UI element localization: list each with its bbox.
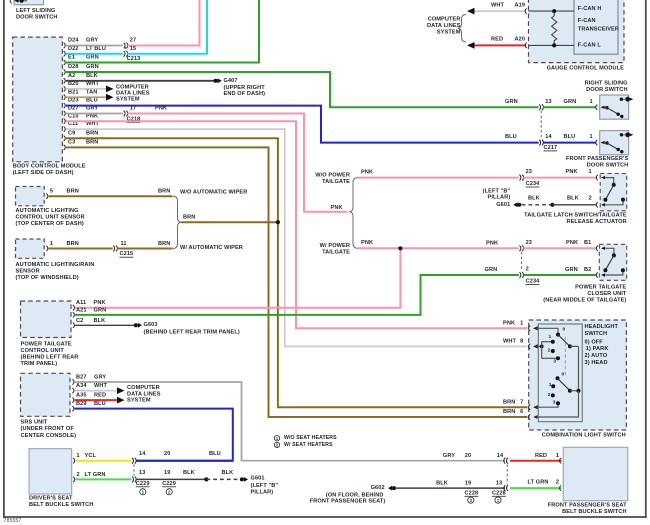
svg-text:(LEFT "B": (LEFT "B" — [251, 483, 279, 489]
svg-text:W/ AUTOMATIC WIPER: W/ AUTOMATIC WIPER — [180, 245, 243, 251]
svg-text:A2: A2 — [68, 73, 75, 79]
svg-text:YCL: YCL — [85, 453, 97, 459]
wire D23 BLU to front passenger door switch — [66, 106, 539, 143]
svg-text:0) OFF: 0) OFF — [585, 339, 604, 345]
svg-text:FRONT PASSENGER'S: FRONT PASSENGER'S — [566, 156, 628, 162]
body control module U1 — [13, 37, 63, 162]
svg-text:PILLAR): PILLAR) — [251, 490, 274, 496]
svg-text:6: 6 — [520, 409, 523, 415]
connector 19/13 (C228) — [504, 485, 508, 491]
svg-text:TAILGATE: TAILGATE — [322, 250, 350, 256]
connector C228 link — [506, 464, 508, 484]
svg-text:CENTER CONSOLE): CENTER CONSOLE) — [21, 433, 77, 439]
front passenger's seat belt buckle switch — [563, 447, 628, 500]
svg-text:G602: G602 — [371, 485, 385, 491]
wire E1 GRN exits top — [66, 0, 259, 63]
svg-text:LEFT SLIDING: LEFT SLIDING — [16, 8, 55, 14]
svg-text:(NEAR MIDDLE OF TAILGATE): (NEAR MIDDLE OF TAILGATE) — [543, 298, 626, 304]
BCM pin B20 — [64, 86, 66, 91]
svg-text:COMPUTER: COMPUTER — [428, 16, 461, 22]
wire D24 GRY to connector 27 — [66, 45, 123, 47]
connector 23 (C234) closer — [519, 245, 523, 251]
arrow computer data lines A35 — [117, 397, 125, 404]
right sliding door switch — [600, 95, 629, 119]
SRS pin B29 — [72, 406, 74, 411]
internal wire F-CAN H — [529, 10, 575, 12]
junction F-CAN H / resistor — [552, 9, 556, 13]
svg-text:C229: C229 — [162, 481, 176, 487]
driver buckle pin 2 — [73, 477, 75, 482]
svg-text:DOOR SWITCH: DOOR SWITCH — [587, 162, 629, 168]
svg-text:BLK: BLK — [567, 195, 579, 201]
svg-text:PNK: PNK — [94, 300, 106, 306]
BCM pin C11 — [64, 127, 66, 132]
wire PNK w/ power tailgate to connector 23 — [358, 247, 519, 249]
svg-text:FRONT PASSENGER SEAT): FRONT PASSENGER SEAT) — [310, 499, 386, 505]
wire D28 GRN to right sliding door switch — [66, 72, 539, 107]
wire BLK connector to junction — [136, 478, 207, 480]
svg-text:LT BLU: LT BLU — [86, 46, 106, 52]
svg-text:GRY: GRY — [86, 38, 98, 44]
closer pin B2 — [596, 272, 598, 277]
front passenger door switch — [600, 131, 629, 155]
wire YCL pin1 to connector 14 — [75, 460, 131, 462]
headlight switch inner box — [538, 324, 582, 422]
svg-text:AUTOMATIC LIGHTING: AUTOMATIC LIGHTING — [16, 208, 79, 214]
svg-text:BRN: BRN — [183, 214, 195, 220]
svg-text:PNK: PNK — [566, 240, 578, 246]
svg-text:PNK: PNK — [331, 205, 343, 211]
svg-text:BLK: BLK — [183, 470, 195, 476]
BCM pin C9 — [64, 136, 66, 141]
gauge pin A20 — [525, 43, 527, 48]
wire BRN connector 11 to brace — [117, 248, 173, 250]
junction BLK — [550, 203, 554, 207]
svg-text:A20: A20 — [515, 37, 526, 43]
driver's seat belt buckle switch — [29, 449, 72, 494]
svg-text:C215: C215 — [120, 251, 134, 257]
wire PNK connector 23 to tailgate latch switch — [523, 177, 596, 179]
svg-text:BRN: BRN — [86, 140, 98, 146]
upper wafer contacts — [537, 345, 542, 347]
page border left — [3, 0, 5, 518]
svg-text:13: 13 — [545, 99, 551, 105]
svg-text:1: 1 — [549, 382, 552, 388]
wire B21 TAN to computer data lines — [66, 96, 106, 98]
wire PNK connector 23 to closer unit B1 — [523, 247, 596, 249]
ground G407 — [214, 79, 218, 83]
connector 2 (C234) — [519, 272, 523, 278]
passenger buckle pin 2 — [560, 486, 562, 491]
svg-text:DOOR SWITCH: DOOR SWITCH — [16, 15, 58, 21]
svg-text:C2: C2 — [76, 318, 83, 324]
svg-text:3: 3 — [553, 400, 556, 406]
tailgate latch switch/tailgate release actuator — [600, 174, 627, 211]
svg-text:WHT: WHT — [503, 339, 517, 345]
connector C234 link — [520, 252, 522, 272]
svg-text:C234: C234 — [526, 181, 541, 187]
wire A11 PNK to w/ power tailgate junction — [75, 248, 400, 307]
svg-text:785557: 785557 — [4, 518, 22, 524]
svg-text:RED: RED — [535, 453, 547, 459]
junction BRN sensors / C9 — [276, 220, 280, 224]
lower wafer contacts — [551, 384, 555, 388]
wire A2 BLK to G407 — [66, 80, 214, 82]
svg-text:SYSTEM: SYSTEM — [437, 30, 461, 36]
svg-text:C229: C229 — [136, 481, 150, 487]
wire BLK dashed G601 to junction — [522, 204, 553, 206]
svg-text:23: 23 — [526, 240, 532, 246]
wire C11 WHT to combination light switch pin 8 — [66, 129, 528, 346]
svg-text:7: 7 — [520, 399, 523, 405]
svg-text:(ON FLOOR, BEHIND: (ON FLOOR, BEHIND — [326, 492, 384, 498]
svg-text:20: 20 — [465, 453, 471, 459]
connector 13/19 (C229) — [132, 477, 136, 483]
wire BRN sensor 5 to brace — [49, 195, 173, 197]
wire RED A20 to F-CAN L — [475, 44, 527, 46]
svg-text:W/ SEAT HEATERS: W/ SEAT HEATERS — [284, 442, 333, 448]
wire C2 BLK to G603 — [75, 324, 134, 326]
svg-text:TAN: TAN — [86, 89, 97, 95]
wire B29 BLU to connector 14/20 — [75, 409, 233, 461]
svg-text:A35: A35 — [76, 393, 87, 399]
legend w/o seat heaters — [274, 436, 279, 441]
svg-text:C217: C217 — [544, 145, 558, 151]
junction w/ power tailgate PNK — [398, 246, 402, 250]
wire C9 BRN to combination light switch pin 7 — [66, 138, 528, 407]
mechanical link dashed — [564, 337, 566, 376]
svg-text:SENSOR: SENSOR — [16, 268, 40, 274]
svg-text:TAILGATE: TAILGATE — [322, 179, 350, 185]
svg-text:G601: G601 — [496, 202, 510, 208]
svg-text:C9: C9 — [68, 130, 75, 136]
svg-text:DATA LINES: DATA LINES — [116, 90, 150, 96]
svg-text:B1: B1 — [584, 240, 591, 246]
connector C213 link — [125, 47, 127, 51]
svg-text:BLK: BLK — [94, 318, 106, 324]
svg-text:GRN: GRN — [86, 64, 99, 70]
svg-text:A21: A21 — [76, 307, 87, 313]
wire GRN connector 13 to right sliding door switch — [543, 106, 596, 108]
svg-text:F-CAN H: F-CAN H — [578, 6, 602, 12]
latch pin 1 — [596, 175, 598, 180]
svg-text:SYSTEM: SYSTEM — [127, 398, 151, 404]
brace w/o-w/ automatic wiper — [173, 196, 182, 248]
svg-text:19: 19 — [164, 470, 170, 476]
BCM pin D28 — [64, 69, 66, 74]
gauge control module — [529, 0, 625, 63]
svg-text:0: 0 — [562, 371, 565, 377]
arrow computer data lines B20 — [106, 86, 114, 93]
svg-text:17: 17 — [130, 106, 136, 112]
svg-text:G601: G601 — [251, 475, 265, 481]
wire BRN brace to C9 junction — [182, 221, 278, 223]
arrow computer data lines B21 — [106, 94, 114, 101]
svg-text:(TOP OF WINDSHIELD): (TOP OF WINDSHIELD) — [16, 275, 79, 281]
brace computer data lines gauge — [458, 15, 467, 42]
svg-text:BRN: BRN — [158, 241, 170, 247]
page border bottom — [3, 516, 647, 518]
svg-text:C228: C228 — [492, 490, 506, 496]
closer pin B1 — [596, 246, 598, 251]
svg-text:DATA LINES: DATA LINES — [427, 23, 461, 29]
connector 23 (C234) — [519, 175, 523, 181]
svg-text:23: 23 — [526, 169, 532, 175]
svg-text:0: 0 — [563, 327, 566, 333]
svg-text:1: 1 — [556, 453, 559, 459]
SRS unit — [21, 373, 71, 416]
svg-text:PNK: PNK — [361, 170, 373, 176]
wire LT GRN connector to passenger buckle pin 2 — [510, 487, 561, 489]
svg-text:RED: RED — [94, 393, 106, 399]
wire A35 RED to computer data lines — [75, 399, 117, 401]
SRS pin A34 — [72, 388, 74, 393]
BCM pin C3 — [64, 145, 66, 150]
terminating resistor — [552, 11, 557, 45]
svg-text:BLK: BLK — [528, 195, 540, 201]
svg-text:SRS UNIT: SRS UNIT — [21, 420, 48, 426]
svg-text:GAUGE CONTROL MODULE: GAUGE CONTROL MODULE — [547, 65, 625, 71]
wire C10 PNK to combination light switch pin 1 — [66, 121, 528, 328]
wire BLK dashed junction to G601 — [206, 478, 239, 480]
svg-text:GRN: GRN — [564, 99, 577, 105]
wire A34 WHT to computer data lines — [75, 390, 117, 392]
svg-text:11: 11 — [121, 241, 127, 247]
svg-text:CLOSER UNIT: CLOSER UNIT — [587, 291, 626, 297]
svg-text:BLU: BLU — [564, 134, 576, 140]
svg-text:W/O POWER: W/O POWER — [315, 172, 350, 178]
svg-text:COMPUTER: COMPUTER — [116, 84, 149, 90]
power tailgate closer unit — [599, 244, 626, 280]
arrow computer data lines A19 — [467, 8, 475, 15]
wire BLK junction to latch pin 2 — [553, 204, 597, 206]
svg-text:CONTROL UNIT SENSOR: CONTROL UNIT SENSOR — [16, 215, 85, 221]
svg-text:G407: G407 — [224, 78, 238, 84]
svg-text:1: 1 — [50, 241, 53, 247]
svg-text:W/O AUTOMATIC WIPER: W/O AUTOMATIC WIPER — [180, 189, 247, 195]
svg-text:BRN: BRN — [503, 409, 515, 415]
connector 27 (C213) — [124, 43, 128, 49]
svg-text:BRN: BRN — [158, 188, 170, 194]
svg-text:PNK: PNK — [486, 240, 498, 246]
driver buckle pin 1 — [73, 458, 75, 463]
wire B27 GRY to C228 connector — [75, 382, 505, 461]
svg-text:PILLAR): PILLAR) — [488, 195, 511, 201]
wire PNK w/o power tailgate to connector 23 — [358, 177, 519, 179]
svg-text:BRN: BRN — [67, 241, 79, 247]
svg-text:LT GRN: LT GRN — [85, 472, 106, 478]
svg-text:POWER TAILGATE: POWER TAILGATE — [575, 284, 626, 290]
latch pin 2 — [596, 202, 598, 207]
wire GRN connector 2 to closer unit B2 — [523, 274, 596, 276]
wire D27 GRY to connector 17 — [66, 113, 123, 115]
connector 15 (C213) — [124, 51, 128, 57]
left sliding door switch — [14, 0, 44, 5]
brace w/o-w/ power tailgate — [349, 178, 358, 249]
wire RED connector to passenger buckle pin 1 — [510, 460, 561, 462]
connector 14 (C217) — [539, 140, 543, 146]
svg-text:PNK: PNK — [361, 240, 373, 246]
svg-text:END OF DASH): END OF DASH) — [224, 91, 266, 97]
wire C3 BRN to combination light switch pin 6 — [66, 147, 528, 417]
svg-text:GRN: GRN — [565, 267, 578, 273]
connector C217 link — [540, 111, 542, 139]
svg-text:GRY: GRY — [443, 453, 455, 459]
svg-text:TRIM PANEL): TRIM PANEL) — [21, 361, 58, 367]
svg-text:2: 2 — [548, 347, 551, 353]
svg-text:8: 8 — [520, 339, 523, 345]
svg-text:RED: RED — [491, 37, 503, 43]
svg-text:PNK: PNK — [503, 320, 515, 326]
svg-text:B27: B27 — [76, 375, 87, 381]
wire PNK from connector 27, exits top — [128, 0, 200, 46]
svg-text:B21: B21 — [68, 89, 79, 95]
svg-text:GRN: GRN — [94, 307, 107, 313]
svg-text:27: 27 — [130, 38, 136, 44]
wire D22 LT BLU to connector 15 — [66, 53, 123, 55]
F-CAN transceiver box — [574, 0, 618, 54]
connector C229 link — [133, 464, 135, 476]
combination light switch — [529, 320, 627, 430]
svg-text:A34: A34 — [76, 383, 87, 389]
svg-text:D22: D22 — [68, 46, 79, 52]
svg-text:BODY CONTROL MODULE: BODY CONTROL MODULE — [13, 164, 86, 170]
combination pin 8 — [529, 344, 531, 349]
ground G601 bottom — [240, 477, 244, 481]
svg-text:PNK: PNK — [155, 106, 167, 112]
svg-text:SWITCH: SWITCH — [585, 331, 608, 337]
svg-text:1: 1 — [77, 453, 80, 459]
svg-text:F-CAN: F-CAN — [578, 18, 596, 24]
svg-text:LT GRN: LT GRN — [527, 479, 548, 485]
BCM pin D22 — [64, 51, 66, 56]
combination pin 6 — [529, 414, 531, 419]
svg-text:(BEHIND LEFT REAR TRIM PANEL): (BEHIND LEFT REAR TRIM PANEL) — [144, 329, 240, 335]
wire WHT A19 to F-CAN H — [475, 10, 527, 12]
svg-text:15: 15 — [130, 46, 136, 52]
BCM pin A2 — [64, 78, 66, 83]
BCM pin D27 — [64, 111, 66, 116]
wire BRN rain sensor to connector 11 — [49, 248, 113, 250]
svg-text:14: 14 — [545, 134, 552, 140]
svg-text:3: 3 — [553, 358, 556, 364]
rain sensor pin 1 — [46, 246, 48, 251]
svg-text:BLU: BLU — [94, 401, 106, 407]
svg-text:C3: C3 — [68, 140, 75, 146]
svg-text:B20: B20 — [68, 81, 79, 87]
svg-text:2) AUTO: 2) AUTO — [585, 353, 608, 359]
combination pin 1 — [529, 326, 531, 331]
svg-text:BRN: BRN — [67, 188, 79, 194]
svg-text:B29: B29 — [76, 401, 87, 407]
svg-text:PNK: PNK — [566, 169, 578, 175]
svg-text:DOOR SWITCH: DOOR SWITCH — [586, 87, 628, 93]
ground G603 — [134, 323, 138, 327]
PTCU pin A21 — [73, 312, 75, 317]
svg-text:W/ POWER: W/ POWER — [320, 243, 350, 249]
svg-text:GRN: GRN — [86, 55, 99, 61]
automatic lighting/rain sensor — [16, 239, 45, 258]
svg-text:BLU: BLU — [505, 134, 517, 140]
svg-text:BLK: BLK — [436, 480, 448, 486]
svg-text:FRONT PASSENGER'S SEAT: FRONT PASSENGER'S SEAT — [548, 503, 627, 509]
svg-text:5: 5 — [50, 189, 53, 195]
gauge pin A19 — [525, 9, 527, 14]
BCM pin C10 — [64, 119, 66, 124]
svg-text:3) HEAD: 3) HEAD — [585, 360, 608, 366]
svg-text:BRN: BRN — [503, 399, 515, 405]
svg-text:1: 1 — [548, 334, 551, 340]
svg-text:(UNDER FRONT OF: (UNDER FRONT OF — [21, 426, 75, 432]
svg-text:13: 13 — [496, 480, 502, 486]
combination pin 7 — [529, 405, 531, 410]
svg-text:WHT: WHT — [491, 3, 505, 9]
svg-text:1: 1 — [590, 134, 593, 140]
svg-text:SYSTEM: SYSTEM — [116, 97, 140, 103]
svg-text:A11: A11 — [76, 300, 86, 306]
svg-text:DRIVER'S SEAT: DRIVER'S SEAT — [29, 495, 73, 501]
svg-text:(UPPER RIGHT: (UPPER RIGHT — [224, 85, 266, 91]
wire BLU connector to SRS B29 — [136, 460, 233, 462]
svg-text:BELT BUCKLE SWITCH: BELT BUCKLE SWITCH — [562, 509, 626, 515]
wire LT BLU exits top — [128, 0, 208, 54]
legend w/ seat heaters — [274, 442, 279, 447]
SRS pin A35 — [72, 398, 74, 403]
page border right — [645, 0, 647, 518]
svg-text:BLK: BLK — [86, 73, 98, 79]
svg-text:E1: E1 — [68, 55, 75, 61]
automatic lighting control unit sensor — [16, 187, 45, 206]
svg-text:GRN: GRN — [505, 99, 518, 105]
junction BLK driver — [204, 477, 208, 481]
svg-text:1: 1 — [590, 99, 593, 105]
headlight switch lower wafer — [556, 376, 560, 380]
svg-text:B2: B2 — [584, 267, 591, 273]
svg-text:D24: D24 — [68, 38, 79, 44]
svg-text:D28: D28 — [68, 64, 79, 70]
connector 20/14 (C228) — [504, 458, 508, 464]
BCM pin D24 — [64, 43, 66, 48]
wire BLK G602 to connector — [396, 487, 505, 489]
svg-text:AUTOMATIC LIGHTING/RAIN: AUTOMATIC LIGHTING/RAIN — [16, 262, 95, 268]
power tailgate control unit — [21, 301, 72, 338]
svg-text:2: 2 — [589, 195, 592, 201]
svg-text:2: 2 — [77, 472, 80, 478]
connector 11 (C215) — [113, 246, 117, 252]
connector 17 (C218) — [124, 111, 128, 117]
svg-text:C234: C234 — [526, 278, 541, 284]
wire BLU connector 14 to front passenger door switch — [543, 142, 596, 144]
svg-text:BELT BUCKLE SWITCH: BELT BUCKLE SWITCH — [29, 502, 93, 508]
svg-text:(TOP CENTER OF DASH): (TOP CENTER OF DASH) — [16, 221, 84, 227]
svg-text:COMPUTER: COMPUTER — [127, 385, 160, 391]
svg-text:W/O SEAT HEATERS: W/O SEAT HEATERS — [284, 435, 337, 441]
svg-text:C213: C213 — [127, 56, 141, 62]
svg-text:COMBINATION LIGHT SWITCH: COMBINATION LIGHT SWITCH — [542, 433, 626, 439]
svg-text:BRN: BRN — [86, 130, 98, 136]
svg-text:2: 2 — [556, 479, 559, 485]
svg-text:BLK: BLK — [222, 470, 234, 476]
svg-text:A19: A19 — [515, 3, 526, 9]
svg-text:13: 13 — [139, 470, 145, 476]
svg-text:1) PARK: 1) PARK — [586, 346, 609, 352]
sensor pin 5 — [46, 194, 48, 199]
svg-text:20: 20 — [164, 451, 170, 457]
svg-text:WHT: WHT — [94, 383, 108, 389]
PTCU pin C2 — [73, 323, 75, 328]
arrow computer data lines A34 — [117, 387, 125, 394]
svg-text:BLU: BLU — [209, 451, 221, 457]
